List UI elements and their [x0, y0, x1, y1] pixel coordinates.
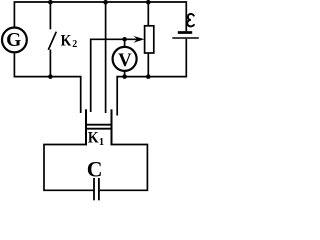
svg-text:1: 1	[99, 137, 104, 148]
svg-text:2: 2	[72, 39, 77, 50]
svg-text:C: C	[87, 157, 103, 181]
svg-text:K: K	[61, 33, 72, 50]
svg-text:G: G	[6, 30, 21, 51]
svg-text:K: K	[88, 130, 99, 147]
svg-text:V: V	[118, 50, 132, 71]
